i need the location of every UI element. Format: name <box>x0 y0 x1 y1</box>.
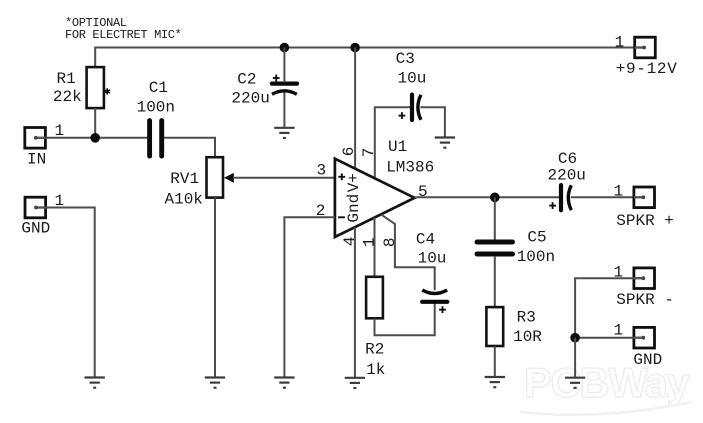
svg-text:C2: C2 <box>237 70 256 88</box>
wire C3 right to ground <box>420 107 445 137</box>
svg-text:1: 1 <box>614 321 624 339</box>
svg-text:1k: 1k <box>366 361 385 379</box>
capacitor C4 <box>416 230 447 301</box>
wire C1 to RV1 <box>164 138 215 157</box>
svg-text:LM386: LM386 <box>386 159 434 177</box>
U1 minus input mark <box>338 216 345 218</box>
wire R2 bottom to C4 bottom <box>375 304 435 336</box>
C2 plus mark <box>273 75 280 82</box>
svg-text:C4: C4 <box>416 230 435 248</box>
ground pin4 <box>345 378 365 388</box>
wire GND right to junction <box>575 337 634 339</box>
svg-text:6: 6 <box>340 147 358 157</box>
capacitor C5 <box>477 229 555 267</box>
op-amp U1 LM386 <box>335 138 434 237</box>
wire RV1 wiper to pin3 <box>233 177 335 179</box>
svg-text:C5: C5 <box>527 229 546 247</box>
connector GND right <box>614 321 663 369</box>
ground right <box>565 378 585 388</box>
node junction top rail / C2 <box>280 43 290 53</box>
connector GND left <box>21 192 64 238</box>
connector IN <box>25 122 64 169</box>
svg-text:R1: R1 <box>57 70 76 88</box>
svg-text:1: 1 <box>615 34 625 52</box>
connector SPKR- <box>614 263 674 309</box>
wire C6 to SPKR+ <box>571 196 634 198</box>
node junction output / C5 <box>490 193 500 203</box>
svg-text:Gnd: Gnd <box>345 194 363 223</box>
wire output junction to C5 <box>494 197 496 240</box>
wire top power rail <box>95 48 635 68</box>
U1 plus input mark <box>338 173 345 180</box>
wire C2 top <box>283 48 285 83</box>
svg-text:IN: IN <box>27 151 46 169</box>
svg-text:PCBWay: PCBWay <box>524 359 691 406</box>
resistor R3 <box>486 307 542 346</box>
svg-text:1: 1 <box>614 183 624 201</box>
wire pin4 to ground <box>354 227 356 378</box>
wire SPKR- to junction <box>575 278 634 338</box>
ground RV1 <box>205 378 225 388</box>
svg-text:22k: 22k <box>53 88 82 106</box>
svg-text:220u: 220u <box>231 90 269 108</box>
connector +9-12V <box>615 34 678 79</box>
svg-text:4: 4 <box>341 236 359 246</box>
wire C2 bottom to ground <box>283 93 285 128</box>
C4 plus mark <box>439 306 446 313</box>
svg-text:7: 7 <box>360 148 378 158</box>
svg-text:C3: C3 <box>396 50 415 68</box>
wire R1 bottom to IN node <box>94 108 96 138</box>
watermark <box>520 359 692 415</box>
wire pin7 to C3 <box>375 107 410 178</box>
note text <box>65 16 181 42</box>
wire pin8 to C4 top <box>381 214 435 290</box>
ground left <box>85 378 105 388</box>
svg-text:10R: 10R <box>513 328 542 346</box>
svg-text:R3: R3 <box>517 309 536 327</box>
svg-text:GND: GND <box>633 351 662 369</box>
potentiometer RV1 <box>165 157 234 208</box>
svg-text:220u: 220u <box>548 166 586 184</box>
svg-text:100n: 100n <box>137 98 175 116</box>
svg-text:8: 8 <box>381 237 399 247</box>
wire IN to C1 <box>45 137 147 139</box>
svg-text:A10k: A10k <box>165 190 203 208</box>
svg-text:C6: C6 <box>558 150 577 168</box>
node junction SPKR- / GND <box>570 333 580 343</box>
ground R3 <box>485 377 505 387</box>
ground C3 <box>435 138 455 148</box>
ground C2 <box>274 128 294 138</box>
svg-text:V+: V+ <box>345 173 363 192</box>
capacitor C1 <box>137 79 175 156</box>
capacitor C2 <box>231 70 297 107</box>
svg-text:+9-12V: +9-12V <box>616 60 678 78</box>
wire junction to ground <box>574 338 576 378</box>
C6 plus mark <box>549 202 556 209</box>
resistor R1 <box>53 67 104 108</box>
svg-text:10u: 10u <box>398 69 427 87</box>
svg-text:C1: C1 <box>149 79 168 97</box>
R1 optional asterisk <box>104 88 110 94</box>
capacitor C3 <box>396 50 427 120</box>
capacitor C6 <box>548 150 586 211</box>
resistor R2 <box>365 277 385 379</box>
svg-text:R2: R2 <box>365 341 384 359</box>
node junction top rail / pin6 <box>350 43 360 53</box>
wire GND left to ground <box>46 208 95 378</box>
svg-text:U1: U1 <box>388 138 407 156</box>
wire RV1 bottom to ground <box>214 198 216 378</box>
ground pin2 <box>274 378 294 388</box>
wire R3 to ground <box>494 346 496 377</box>
wire pin1 to R2 <box>374 218 376 277</box>
svg-text:100n: 100n <box>517 248 555 266</box>
svg-text:1: 1 <box>361 237 379 247</box>
svg-text:FOR ELECTRET MIC*: FOR ELECTRET MIC* <box>65 28 181 42</box>
svg-text:10u: 10u <box>418 249 447 267</box>
node junction IN / R1 <box>90 133 100 143</box>
C3 plus mark <box>399 112 406 119</box>
svg-text:3: 3 <box>317 161 327 179</box>
svg-text:SPKR +: SPKR + <box>616 212 674 230</box>
wire pin2 to ground <box>284 217 335 377</box>
svg-text:GND: GND <box>21 220 50 238</box>
wire pin5 output <box>415 196 560 198</box>
svg-text:RV1: RV1 <box>170 170 199 188</box>
svg-text:SPKR -: SPKR - <box>616 291 674 309</box>
connector SPKR+ <box>614 183 674 231</box>
wire C5 to R3 <box>494 256 496 307</box>
wire pin6 <box>354 48 356 169</box>
